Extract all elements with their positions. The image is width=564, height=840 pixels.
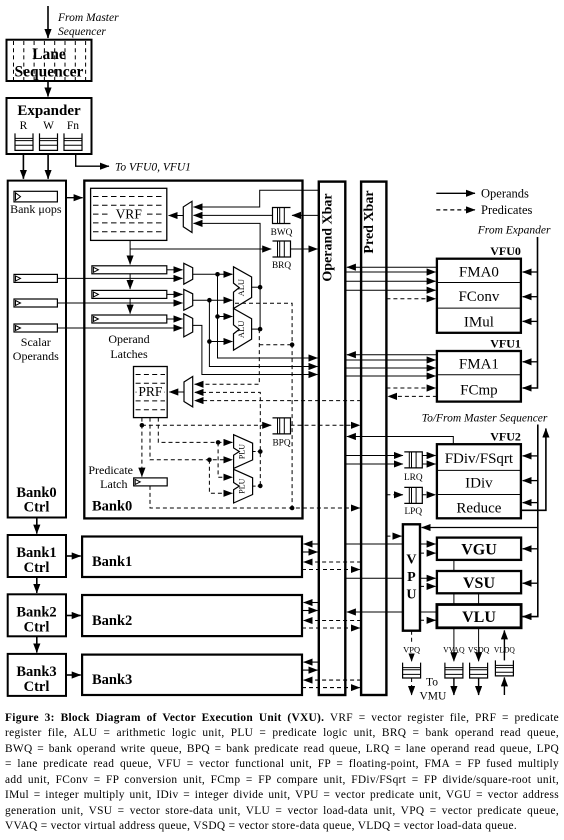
svg-text:Bank3: Bank3	[92, 672, 132, 688]
mux PRF write	[184, 377, 193, 407]
wire BWQ to VRF mux (mid input)	[194, 214, 273, 216]
svg-text:VSU: VSU	[463, 575, 495, 592]
predicate wire latch to pred xbar (bank0 predicate out)	[150, 486, 360, 508]
wire LS to expander	[47, 81, 49, 97]
mux operand 1	[184, 263, 193, 284]
wire from expander vertical	[523, 237, 538, 388]
mux operand 2	[184, 289, 193, 310]
svg-text:To/From Master Sequencer: To/From Master Sequencer	[422, 413, 548, 425]
wire ALU1 output	[252, 286, 261, 288]
scalar operand queue 1	[14, 274, 57, 282]
wire from master sequencer	[47, 6, 49, 38]
svg-text:W: W	[43, 120, 54, 132]
predicate wire pred xbar to bank2	[304, 620, 362, 622]
svg-text:Bank2: Bank2	[16, 605, 56, 621]
queue VPQ	[403, 663, 421, 678]
wire PRF mux to PRF	[169, 391, 184, 393]
wire bank1 to operand xbar	[302, 551, 318, 553]
predicate wire VPU to VSU	[420, 585, 436, 587]
svg-text:Ctrl: Ctrl	[24, 620, 50, 636]
wire VRF to BRQ	[130, 248, 271, 250]
VPU box	[403, 524, 420, 630]
wire mux2 rail to ALU2 in2	[209, 300, 232, 341]
svg-text:FConv: FConv	[458, 289, 499, 305]
svg-text:IMul: IMul	[464, 314, 494, 330]
wire expander to bank ctrl (left)	[22, 154, 24, 179]
legend operands	[436, 192, 475, 194]
wire latch2 to mux2	[167, 293, 183, 295]
wire scalar operand 1	[57, 277, 182, 279]
wire Reduce to master sequencer (up)	[521, 429, 546, 511]
queue VLDQ (inverted)	[495, 660, 513, 676]
queue BPQ	[273, 418, 291, 434]
Bank3 box	[82, 655, 302, 695]
wire bank uops to Bank0	[66, 197, 83, 199]
svg-text:FMA0: FMA0	[459, 264, 499, 280]
VFU1 box	[437, 351, 521, 402]
wire master sequencer distribution vertical	[523, 425, 538, 617]
wire operand xbar to LRQ	[345, 455, 403, 457]
wire Bank2Ctrl to Bank3Ctrl	[36, 636, 38, 652]
bank uops queue	[14, 191, 57, 202]
wire xbar to BWQ	[292, 214, 318, 216]
scalar operand queue 3	[14, 324, 57, 332]
Bank1 box	[82, 537, 302, 578]
wire mux3 rail to operand xbar	[193, 325, 318, 374]
wire Bank1Ctrl to Bank1	[66, 555, 81, 557]
wire operand xbar to bank3	[304, 661, 319, 663]
figure caption	[5, 711, 559, 835]
queue Fn	[64, 133, 82, 150]
wire VPU feed from master seq line	[422, 527, 538, 529]
svg-text:Operands: Operands	[481, 187, 529, 201]
svg-text:Lane: Lane	[32, 46, 66, 63]
svg-text:Bank3: Bank3	[16, 664, 56, 680]
wire latch3 to mux3	[167, 318, 183, 320]
VSU box	[437, 571, 521, 593]
svg-text:R: R	[20, 120, 28, 132]
predicate wire pred xbar to PRF mux in3	[195, 400, 362, 402]
Bank2 Ctrl box	[8, 594, 66, 636]
predicate wire PRF to PLU1 in2 / PLU2 in2	[150, 418, 232, 460]
wire scalar operand 2	[57, 302, 182, 304]
Operand Xbar	[319, 182, 346, 695]
svg-text:V: V	[406, 553, 416, 568]
Bank0 Ctrl box	[8, 181, 66, 518]
predicate wire ALU2 out to PRF mux in1	[195, 329, 260, 384]
legend predicates	[436, 209, 475, 211]
VGU box	[437, 538, 521, 560]
svg-text:Pred Xbar: Pred Xbar	[362, 190, 377, 253]
wire operand xbar to VGU (via bank1 row)	[345, 543, 435, 545]
Bank0 box	[84, 181, 302, 519]
PLU 2	[234, 469, 253, 503]
predicate wire LPQ to VFU2	[422, 494, 435, 496]
wire operand xbar to bank2	[304, 602, 319, 604]
svg-text:VSDQ: VSDQ	[468, 644, 490, 654]
svg-text:VLU: VLU	[462, 609, 496, 626]
wire FMA0 out to operand xbar	[347, 266, 437, 268]
wire mux1 to ALU1 in1	[193, 273, 233, 275]
lane sequencer LS	[7, 40, 92, 81]
wire Bank0Ctrl to Bank1Ctrl	[36, 518, 38, 534]
svg-text:VFU1: VFU1	[490, 336, 521, 350]
svg-text:Ctrl: Ctrl	[24, 679, 50, 695]
wire mux2 rail to operand xbar	[209, 342, 317, 367]
predicate wire VPU to VGU	[420, 552, 436, 554]
operand latch 2	[92, 290, 167, 298]
predicate wire PLU1 output	[253, 451, 261, 453]
queue LRQ	[404, 452, 422, 468]
svg-text:Operands: Operands	[13, 349, 59, 363]
wire bank2 to operand xbar	[302, 610, 318, 612]
wire FDiv out to operand xbar	[347, 437, 453, 445]
svg-text:Scalar: Scalar	[21, 335, 51, 349]
predicate wire PRF to PLU1 in1 / PLU2 in1	[158, 418, 232, 443]
wire VLDQ to VLU (up)	[503, 630, 505, 660]
wire mux2 to ALU1 in2	[193, 299, 233, 301]
svg-text:Bank0: Bank0	[92, 499, 132, 515]
predicate wire BPQ to pred xbar	[291, 424, 360, 426]
wire to VFU0,VFU1	[76, 154, 109, 166]
svg-text:ALU: ALU	[236, 321, 246, 338]
wire ALU2 output	[252, 328, 261, 330]
svg-text:Operand Xbar: Operand Xbar	[321, 193, 336, 281]
predicate wire pred xbar to LPQ	[386, 494, 403, 496]
ALU 2	[234, 309, 252, 351]
wire ALU writeback to VRF mux (bottom input)	[194, 223, 261, 287]
Bank3 Ctrl box	[8, 654, 66, 696]
svg-text:U: U	[406, 588, 416, 603]
svg-text:Fn: Fn	[67, 120, 79, 132]
svg-text:VMU: VMU	[419, 691, 447, 703]
svg-text:IDiv: IDiv	[465, 476, 493, 492]
svg-text:Bank2: Bank2	[92, 613, 132, 629]
predicate wire pred xbar to FCmp	[386, 387, 435, 389]
svg-text:BPQ: BPQ	[272, 439, 290, 449]
wire FMA1 out to operand xbar	[347, 354, 437, 356]
wire operand xbar to bank1	[304, 543, 319, 545]
PLU 1	[234, 435, 253, 469]
svg-text:PRF: PRF	[138, 384, 163, 399]
svg-text:Latches: Latches	[110, 347, 148, 361]
wire VGU to VVAQ rail	[453, 560, 455, 571]
queue W	[40, 133, 58, 150]
predicate wire pred xbar to bank1	[304, 561, 362, 563]
svg-text:Ctrl: Ctrl	[24, 500, 50, 516]
wire VVAQ to VMU	[453, 678, 455, 695]
wire LRQ to FDiv	[422, 455, 435, 457]
wire Bank3Ctrl to Bank3	[66, 674, 81, 676]
svg-text:Bank μops: Bank μops	[10, 202, 62, 216]
wire operand xbar to FMA1 (3 operands)	[345, 359, 435, 361]
predicate wire bank3 to pred xbar	[302, 687, 360, 689]
wire Bank2Ctrl to Bank2	[66, 615, 81, 617]
svg-text:Sequencer: Sequencer	[15, 64, 84, 81]
svg-text:VGU: VGU	[461, 542, 497, 559]
predicate wire VPQ to VMU	[411, 678, 413, 695]
wire writeback rail between ALU outputs	[259, 287, 261, 329]
svg-text:VFU0: VFU0	[490, 244, 521, 258]
VFU0 box	[437, 259, 521, 333]
queue R	[15, 133, 33, 150]
operand latch 3	[92, 315, 167, 323]
svg-text:Sequencer: Sequencer	[58, 26, 106, 38]
svg-text:VFU2: VFU2	[490, 429, 521, 443]
svg-text:To: To	[426, 677, 438, 689]
wire scalar operand 3	[57, 327, 182, 329]
wire VMU to VLDQ (up)	[503, 677, 505, 695]
svg-text:PLU: PLU	[237, 444, 246, 459]
expander	[7, 98, 92, 154]
wire bank3 to operand xbar	[302, 669, 318, 671]
mux VRF write	[183, 201, 192, 232]
svg-text:FDiv/FSqrt: FDiv/FSqrt	[445, 451, 514, 467]
predicate wire PLU out rail to PRF mux in2	[195, 392, 261, 485]
operand latch 1	[92, 266, 167, 274]
predicate wire VPU to VPQ	[411, 631, 413, 662]
queue VVAQ	[445, 663, 463, 678]
svg-text:VPQ: VPQ	[403, 644, 421, 654]
svg-text:LPQ: LPQ	[405, 507, 423, 517]
wire mux1 rail to operand xbar	[218, 317, 318, 359]
predicate wire VPU to VLU	[420, 619, 436, 621]
Bank1 Ctrl box	[8, 535, 66, 577]
VFU2 box	[437, 444, 521, 518]
svg-text:From Expander: From Expander	[477, 224, 551, 236]
Pred Xbar	[361, 182, 386, 695]
svg-text:Bank1: Bank1	[16, 545, 56, 561]
svg-text:Operand: Operand	[108, 332, 149, 346]
predicate latch	[134, 478, 168, 486]
predicate wire pred xbar to VPU	[386, 535, 401, 537]
wire VSU to VSDQ rail	[478, 593, 480, 604]
predicate wire PRF to BPQ	[142, 424, 271, 426]
predicate wire bank2 to pred xbar	[302, 627, 360, 629]
queue BWQ	[273, 208, 291, 224]
svg-text:BWQ: BWQ	[271, 228, 293, 238]
predicate wire bank1 to pred xbar	[302, 569, 360, 571]
ALU 1	[234, 267, 252, 309]
wire operand xbar to FMA0 (2 operands)	[345, 271, 435, 273]
predicate wire PRF to predicate latch	[141, 418, 143, 477]
wire mux1 rail to ALU2 in1	[218, 274, 233, 316]
predicate wire pred xbar to bank3	[304, 679, 362, 681]
wire latch1 to mux1	[167, 269, 183, 271]
VLU box	[437, 605, 521, 628]
svg-text:Predicate: Predicate	[88, 463, 133, 477]
svg-text:BRQ: BRQ	[272, 261, 291, 271]
scalar operand queue 2	[14, 299, 57, 307]
svg-text:Expander: Expander	[17, 103, 81, 119]
svg-text:FCmp: FCmp	[460, 383, 498, 399]
queue VSDQ	[470, 663, 488, 678]
wire mux to VRF	[169, 215, 184, 217]
wire VSDQ to VMU	[478, 678, 480, 695]
svg-text:VRF: VRF	[116, 207, 143, 222]
svg-text:Latch: Latch	[100, 477, 127, 491]
svg-text:FMA1: FMA1	[459, 357, 499, 373]
wire Bank1Ctrl to Bank2Ctrl	[36, 577, 38, 593]
predicate wire stub	[259, 344, 292, 346]
svg-text:P: P	[407, 570, 416, 585]
wire operand xbar to FConv	[345, 289, 435, 291]
Bank2 box	[82, 595, 302, 636]
svg-text:To VFU0, VFU1: To VFU0, VFU1	[115, 161, 191, 173]
wire expander to bank ctrl (right)	[47, 154, 49, 179]
predicate wire PLU2 output	[253, 485, 261, 487]
queue BRQ	[273, 241, 291, 257]
svg-text:From Master: From Master	[57, 12, 119, 24]
svg-text:LRQ: LRQ	[404, 473, 423, 483]
wire xbar to VRF mux (top input)	[194, 190, 319, 207]
svg-text:ALU: ALU	[236, 279, 246, 296]
wire VLU to operand xbar	[347, 611, 437, 613]
svg-text:PLU: PLU	[237, 478, 246, 493]
wire VRF down to operand latches	[129, 240, 131, 264]
svg-text:VLDQ: VLDQ	[494, 644, 516, 654]
queue LPQ	[404, 487, 422, 503]
wire BRQ to operand xbar	[291, 248, 318, 250]
svg-text:Reduce: Reduce	[456, 501, 501, 517]
PRF	[134, 367, 168, 418]
predicate wire ALU1 to right	[235, 303, 292, 508]
svg-text:Ctrl: Ctrl	[24, 560, 50, 576]
mux operand 3	[184, 314, 193, 337]
VRF	[91, 188, 167, 240]
wire operand xbar to VSU	[345, 577, 435, 579]
svg-text:Bank1: Bank1	[92, 554, 132, 570]
predicate wire pred xbar to FConv	[386, 298, 435, 300]
predicate wire FCmp to pred xbar	[388, 395, 437, 397]
svg-text:VVAQ: VVAQ	[443, 644, 465, 654]
svg-text:Predicates: Predicates	[481, 203, 533, 217]
